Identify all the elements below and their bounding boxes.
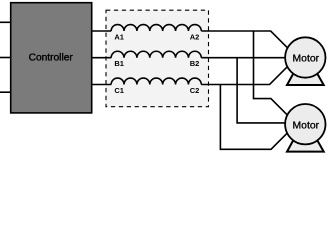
- inductor L1 (A1-A2): [111, 25, 201, 31]
- controller box: [11, 3, 92, 113]
- motor M1 body: [285, 37, 325, 77]
- input wire stub 2: [0, 57, 11, 59]
- wire phase C to motor 1 (bottom diagonal): [201, 60, 294, 84]
- wire phase A from controller: [92, 30, 112, 32]
- svg-text:Motor: Motor: [293, 54, 320, 65]
- choke filter dashed box: [106, 10, 209, 107]
- svg-text:Controller: Controller: [29, 52, 74, 63]
- wire phase C from controller: [92, 84, 112, 86]
- svg-text:C1: C1: [114, 86, 124, 95]
- svg-text:B1: B1: [114, 59, 124, 68]
- inductor L3 (C1-C2): [111, 78, 201, 84]
- motor M2 mount: [287, 138, 324, 152]
- inductor L2 (B1-B2): [111, 51, 201, 57]
- input wire stub 1: [0, 21, 11, 23]
- wire phase B from controller: [92, 57, 112, 59]
- svg-text:Motor: Motor: [293, 121, 320, 132]
- wire phase B branch to motor 2: [237, 58, 298, 123]
- wire phase A to motor 1 (top diagonal): [201, 31, 296, 56]
- input wire stub 3: [0, 91, 11, 93]
- svg-text:A1: A1: [114, 32, 124, 41]
- svg-text:A2: A2: [190, 32, 200, 41]
- wire phase C branch to motor 2: [220, 85, 294, 150]
- svg-text:C2: C2: [190, 86, 200, 95]
- wire phase B to motor 1 (middle): [201, 57, 298, 59]
- motor M1 mount: [287, 71, 324, 85]
- wire phase A branch to motor 2: [254, 31, 295, 122]
- motor M2 body: [285, 104, 325, 144]
- svg-text:B2: B2: [190, 59, 200, 68]
